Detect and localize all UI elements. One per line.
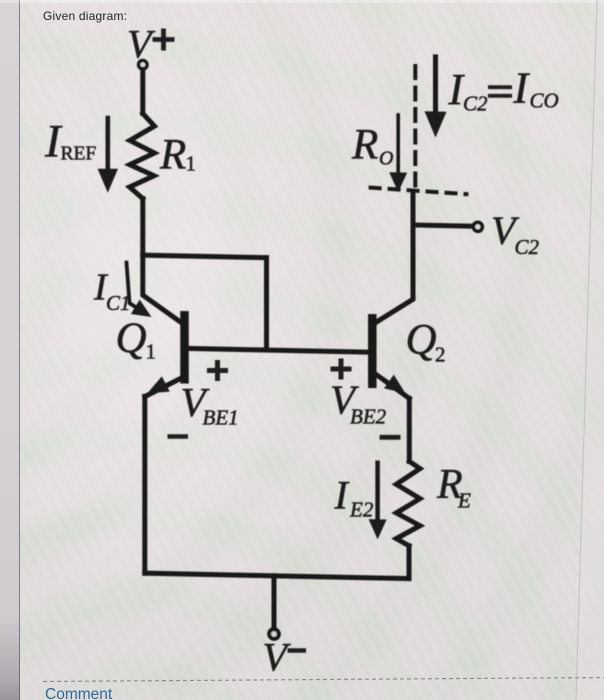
wire Q1 emitter down bbox=[142, 396, 147, 573]
svg-text:C1: C1 bbox=[106, 291, 131, 315]
svg-text:1: 1 bbox=[146, 340, 157, 364]
svg-text:C2: C2 bbox=[463, 92, 488, 116]
svg-text:E: E bbox=[457, 489, 471, 513]
transistor Q1 emitter arrowhead bbox=[143, 376, 170, 401]
svg-text:I: I bbox=[513, 64, 531, 113]
wire Q2 emitter down bbox=[407, 398, 412, 461]
svg-text:E2: E2 bbox=[349, 498, 374, 522]
terminal VC2 bbox=[473, 222, 482, 231]
svg-text:BE2: BE2 bbox=[350, 405, 387, 429]
svg-text:R: R bbox=[159, 132, 186, 179]
transistor Q2 collector bbox=[377, 193, 414, 322]
wire V+ to R1 bbox=[140, 70, 145, 114]
svg-text:Q: Q bbox=[406, 317, 437, 364]
svg-text:CO: CO bbox=[530, 89, 559, 113]
plus VBE1 bbox=[207, 368, 228, 373]
wire bottom rail bbox=[145, 573, 409, 578]
minus VBE1 bbox=[168, 434, 189, 439]
svg-text:I: I bbox=[334, 473, 350, 518]
svg-text:C2: C2 bbox=[515, 235, 540, 259]
svg-text:Q: Q bbox=[116, 315, 147, 362]
dashed line vertical (Ro boundary) bbox=[413, 64, 417, 190]
transistor Q1 collector bbox=[143, 255, 181, 322]
current arrow IREF bbox=[98, 116, 118, 192]
wire base rail bbox=[186, 348, 370, 352]
wire VC2 branch bbox=[413, 225, 473, 226]
wire R1 to node bbox=[140, 199, 145, 256]
dashed comment separator bbox=[43, 678, 604, 682]
terminal V- bbox=[269, 629, 279, 639]
resistor RE bbox=[396, 461, 420, 546]
current arrow IE2 bbox=[375, 463, 380, 518]
svg-text:REF: REF bbox=[61, 144, 97, 165]
plus VBE2 bbox=[331, 367, 352, 372]
transistor Q2 emitter arrowhead bbox=[384, 375, 410, 401]
faint screen-edge line right side bbox=[576, 0, 604, 700]
minus VBE2 bbox=[380, 435, 401, 440]
svg-text:BE1: BE1 bbox=[203, 406, 239, 430]
resistor R1 bbox=[130, 113, 155, 199]
current arrow Ro bbox=[396, 115, 400, 174]
svg-text:V: V bbox=[127, 22, 156, 67]
current arrow IC2 bbox=[433, 57, 438, 116]
svg-text:O: O bbox=[379, 148, 393, 170]
svg-text:R: R bbox=[351, 122, 378, 169]
svg-text:1: 1 bbox=[186, 152, 197, 176]
transistor Q2 emitter bbox=[377, 375, 410, 399]
svg-text:2: 2 bbox=[435, 343, 446, 367]
wire top link horizontal bbox=[143, 255, 267, 258]
wire V- drop bbox=[272, 576, 277, 629]
current arrow IC1 bbox=[127, 263, 144, 312]
transistor Q2 base bar bbox=[368, 318, 377, 384]
transistor Q1 base bar bbox=[180, 315, 189, 379]
wire link vertical to base rail bbox=[264, 258, 269, 350]
wire RE to rail bbox=[407, 546, 412, 579]
terminal V+ bbox=[138, 60, 147, 69]
dashed line horizontal (Ro boundary) bbox=[369, 187, 469, 194]
svg-text:V: V bbox=[263, 635, 292, 680]
transistor Q1 emitter bbox=[145, 377, 181, 397]
